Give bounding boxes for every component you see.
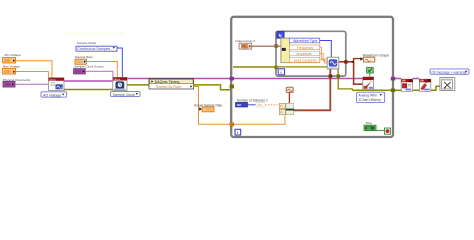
svg-text:1.23: 1.23 — [4, 70, 10, 74]
svg-text:Duty Cycle(%): Duty Cycle(%) — [294, 59, 316, 63]
wire waveform out of generator (brown) — [339, 61, 354, 63]
for loop border — [276, 31, 346, 76]
property node DAQmx Timing / SampClk.Rate — [149, 79, 194, 90]
wire task create-channel to timing (magenta) — [64, 80, 113, 82]
for loop tunnel (error in) — [275, 66, 278, 70]
terminal Actual Sample Rate (DBL indicator) — [199, 107, 214, 112]
while loop tunnel (task right) — [391, 77, 395, 81]
svg-text:Sample Rate: Sample Rate — [75, 55, 93, 59]
for loop tunnel (waveform bottom) — [329, 74, 333, 77]
VI Basic Function Generator — [327, 57, 339, 69]
wire constant to build-waveform (brown) — [288, 92, 290, 103]
build waveform node — [279, 103, 294, 114]
conversion node DBL — [256, 102, 266, 107]
while loop tunnel (error left) — [230, 85, 234, 89]
svg-text:Analog Wfm: Analog Wfm — [358, 94, 377, 98]
svg-text:Min Voltage: Min Voltage — [5, 53, 21, 57]
wire sample mode to timing — [117, 48, 122, 78]
wire error out of generator (olive, down) — [338, 69, 352, 90]
wire error into for loop (olive stub) — [233, 66, 277, 68]
svg-text:i: i — [280, 70, 281, 75]
terminal Number of Samples 2 (I32 control) — [236, 103, 248, 108]
wire stop to conditional terminal — [376, 129, 384, 131]
wire output array to unbundle — [252, 45, 282, 47]
svg-text:DBL: DBL — [257, 104, 262, 107]
wire error inside for loop to generator — [278, 66, 328, 68]
free label (faint comment) — [64, 32, 125, 36]
VI DAQmx Timing — [113, 77, 127, 90]
wire Max Voltage to create-channel — [16, 72, 49, 79]
terminal Sample Rate (DBL control) — [75, 59, 86, 64]
dropdown Continuous Samples (enum constant) — [76, 46, 117, 51]
svg-text:Number of Samples 2: Number of Samples 2 — [237, 99, 268, 103]
wire Min Voltage to create-channel — [16, 61, 52, 78]
VI DAQmx Clear Task — [419, 79, 430, 91]
svg-text:I32: I32 — [237, 103, 241, 107]
wire task timing to while loop to DAQmx Write (magenta) — [127, 78, 363, 80]
svg-text:Sample Clock Source: Sample Clock Source — [74, 64, 104, 68]
svg-text:1.23: 1.23 — [4, 59, 10, 63]
terminal Min Voltage (DBL control) — [3, 57, 16, 63]
terminal Output Array 2 (array control) — [239, 43, 252, 49]
dropdown OK message + warnings — [430, 69, 469, 74]
svg-text:AO Voltage: AO Voltage — [43, 93, 61, 97]
svg-text:1Chan NSamp: 1Chan NSamp — [358, 98, 380, 102]
unbundle field Waveform Type — [289, 38, 319, 43]
svg-text:DAQmx: DAQmx — [114, 78, 121, 81]
wire generator to build-waveform node (brown, down) — [294, 69, 330, 110]
wire error right of loop (olive) — [395, 89, 436, 91]
svg-text:OK message + warnings: OK message + warnings — [431, 70, 466, 74]
dropdown Sample Clock — [111, 91, 140, 96]
terminal Stop (boolean control) — [364, 125, 376, 130]
wire amplitude to generator — [320, 53, 328, 61]
svg-text:Sample Clock: Sample Clock — [113, 93, 135, 97]
dropdown Analog Wfm 1Chan NSamp — [357, 92, 385, 102]
wire sample rate to timing — [86, 62, 117, 78]
wire sample clock source to timing — [85, 71, 113, 77]
wire error timing to property node and onward (olive) — [127, 85, 231, 90]
for loop tunnel (array in) — [275, 44, 278, 48]
terminal Sample Clock Source (IO control) — [74, 69, 86, 74]
VI DAQmx Create Virtual Channel — [49, 78, 64, 91]
wire task right of loop (magenta) — [395, 78, 420, 80]
svg-text:Output Array 2: Output Array 2 — [235, 39, 255, 43]
while loop tunnel (task left) — [230, 77, 234, 81]
svg-text:Waveform Type: Waveform Type — [293, 39, 317, 43]
VI DAQmx Write — [363, 77, 374, 90]
svg-text:Max Voltage: Max Voltage — [3, 64, 20, 68]
svg-text:Amplitude: Amplitude — [296, 52, 312, 56]
while loop border — [231, 17, 393, 137]
svg-text:N: N — [279, 33, 282, 38]
svg-text:Sample Mode: Sample Mode — [77, 41, 96, 45]
waveform constant — [286, 87, 293, 92]
wire true constant to write — [369, 73, 371, 77]
wire SampClk.Rate to indicator and loop (orange) — [194, 87, 285, 125]
wire duty cycle to generator — [320, 60, 328, 63]
green True constant — [367, 67, 374, 73]
svg-text:DAQmx: DAQmx — [49, 79, 56, 82]
unbundle field Amplitude — [289, 51, 319, 56]
wire number of samples to conversion (blue) — [248, 104, 256, 106]
for loop i terminal — [278, 69, 284, 75]
unbundle by name node — [281, 38, 320, 63]
conditional terminal (stop sign) — [384, 128, 390, 134]
wire waveform type to generator (blue) — [320, 41, 332, 58]
svg-text:TF: TF — [367, 126, 371, 130]
svg-text:i: i — [237, 130, 238, 135]
svg-text:SampClk.Rate: SampClk.Rate — [156, 84, 183, 89]
svg-text:Continuous Samples: Continuous Samples — [77, 47, 110, 51]
wire error to DAQmx Write and right (olive) — [352, 86, 440, 90]
unbundle field Duty Cycle — [289, 57, 319, 62]
wire frequency to generator — [320, 47, 328, 59]
terminal Physical Channel(s) (IO control) — [3, 81, 15, 87]
dropdown AO Voltage — [41, 92, 67, 98]
for loop N terminal — [277, 32, 284, 39]
while loop i terminal — [235, 129, 241, 135]
wire physical channel to create-channel — [15, 83, 48, 85]
terminal Waveform Graph (indicator) — [360, 57, 374, 62]
VI Simple Error Handler — [440, 78, 455, 91]
VI DAQmx Stop Task — [401, 79, 412, 91]
wire error create-channel to timing (olive) — [64, 89, 113, 91]
for loop tunnel (error bottom) — [337, 74, 340, 77]
while loop tunnel (orange left) — [230, 123, 234, 127]
wire conversion to build-waveform (orange) — [265, 104, 279, 106]
svg-text:Stop: Stop — [366, 121, 373, 125]
unbundle field Frequency — [289, 45, 319, 50]
while loop tunnel (error right) — [391, 89, 395, 93]
for loop tunnel (waveform right) — [344, 60, 347, 63]
svg-text:Frequency: Frequency — [297, 46, 314, 50]
terminal Max Voltage (DBL control) — [3, 69, 16, 75]
